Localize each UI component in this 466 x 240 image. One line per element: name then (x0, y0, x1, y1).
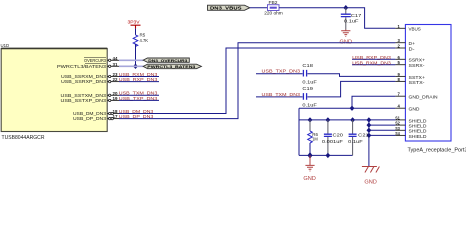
svg-text:1M: 1M (312, 137, 318, 142)
svg-text:GND: GND (303, 176, 316, 182)
svg-text:USB_RXM_DN3: USB_RXM_DN3 (352, 60, 391, 65)
U1D pin 17 stub (107, 117, 119, 119)
gnd bus drop (298, 108, 300, 155)
svg-text:PWRCTL3/BATEN3: PWRCTL3/BATEN3 (57, 64, 106, 69)
chassis ground symbol (362, 167, 380, 173)
junction pin7 on gnd bus (350, 106, 355, 111)
capacitor C19 (303, 93, 306, 100)
svg-text:VBUS: VBUS (409, 27, 421, 32)
wire S2 (369, 124, 396, 126)
svg-text:S4: S4 (395, 131, 400, 136)
capacitor C20 (324, 120, 332, 155)
wire USB_RXP_DN3 to SSRX+ (352, 58, 395, 60)
U1D pin 44 stub (107, 59, 119, 61)
overbar for OVERCUR3 (84, 57, 106, 59)
svg-text:D+: D+ (409, 41, 416, 46)
svg-text:C18: C18 (302, 63, 313, 68)
svg-text:C21: C21 (358, 133, 369, 138)
shield rail to pin S1 (299, 119, 395, 121)
power symbol 3P3V (131, 25, 141, 28)
connector pin S1 stub (395, 119, 405, 121)
bottom rail (299, 154, 353, 156)
svg-text:USB_SSRXP_DN3: USB_SSRXP_DN3 (61, 79, 106, 84)
wire C19 to SSTX- pin 8 (307, 81, 395, 97)
svg-text:0.1uF: 0.1uF (344, 18, 359, 23)
IC U1D body (1, 49, 107, 132)
resistor R5 (133, 35, 138, 47)
U1D pin 18 stub (107, 112, 119, 114)
wire FB2 to VBUS pin 1 (279, 8, 395, 29)
svg-text:SSRX+: SSRX+ (409, 58, 426, 63)
connector body TypeA receptacle (405, 25, 451, 142)
svg-text:SSRX-: SSRX- (409, 63, 426, 68)
svg-text:DN3_OVERCUR3: DN3_OVERCUR3 (148, 58, 188, 63)
connector pin 6 stub (395, 58, 405, 60)
U1D pin 23 stub (107, 75, 119, 77)
svg-text:44: 44 (113, 56, 119, 61)
connector pin 1 stub (395, 27, 405, 29)
ferrite bead FB2 (268, 5, 280, 11)
svg-text:U1D: U1D (1, 43, 10, 48)
svg-text:0.1uF: 0.1uF (348, 139, 363, 144)
junction R6 top (308, 117, 313, 122)
connector pin 9 stub (395, 75, 405, 77)
wire C18 to SSTX+ pin 9 (307, 74, 395, 77)
svg-text:17: 17 (113, 114, 119, 119)
capacitor C18 (303, 70, 306, 77)
wire R5 to PWRCTL3 net (135, 44, 137, 66)
svg-text:OVERCUR3: OVERCUR3 (84, 58, 106, 63)
connector pin 4 stub (395, 107, 405, 109)
svg-text:GND: GND (409, 107, 421, 112)
wire stub USB_RXP_DN3 (119, 81, 159, 83)
svg-text:GND_DRAIN: GND_DRAIN (409, 95, 438, 100)
junction S2 (367, 122, 372, 127)
svg-text:PWRCTL3_BATEN3: PWRCTL3_BATEN3 (147, 64, 196, 69)
svg-text:TUSB8044ARGCR: TUSB8044ARGCR (2, 135, 45, 141)
shield vertical to chassis (368, 120, 370, 166)
svg-text:USB_RXP_DN3: USB_RXP_DN3 (352, 55, 391, 60)
svg-text:DN3_VBUS: DN3_VBUS (210, 5, 242, 10)
wire S3 (369, 129, 396, 131)
connector pin 8 stub (395, 80, 405, 82)
U1D pin 22 stub (107, 80, 119, 82)
capacitor C17 (341, 8, 351, 30)
wire TXM to C19 (256, 96, 303, 98)
ground symbol below R6 (305, 155, 314, 171)
svg-text:0.001uF: 0.001uF (322, 139, 343, 144)
svg-text:USB_SSTXP_DN3: USB_SSTXP_DN3 (61, 98, 107, 103)
svg-text:0.1uF: 0.1uF (302, 79, 317, 84)
svg-text:220 ohm: 220 ohm (264, 11, 283, 16)
wire USB_RXM_DN3 to SSRX- (352, 64, 395, 66)
svg-text:22: 22 (113, 77, 119, 82)
junction C20 top (326, 117, 331, 122)
svg-text:USB_DP_DN3: USB_DP_DN3 (73, 116, 106, 121)
svg-text:31: 31 (113, 62, 119, 67)
U1D pin 31 stub (107, 65, 119, 67)
wire pin 44 to flag (119, 59, 143, 61)
capacitor C21 (349, 120, 357, 155)
resistor R6 (308, 120, 313, 155)
connector pin 2 stub (395, 47, 405, 49)
svg-text:R5: R5 (140, 33, 146, 38)
wire GND_DRAIN pin 7 to bus (352, 96, 395, 108)
svg-text:D-: D- (409, 46, 416, 51)
wire S4 (369, 134, 396, 136)
svg-text:0.1uF: 0.1uF (302, 103, 317, 108)
wire pin 31 to flag (119, 65, 143, 67)
svg-text:4.7K: 4.7K (140, 38, 149, 43)
off-page flag PWRCTL3_BATEN3 (143, 64, 201, 69)
connector pin S3 stub (395, 129, 405, 131)
wire stub USB_TXP_DN3 (119, 99, 159, 101)
U1D box top edge (1, 47, 107, 49)
U1D pin 19 stub (107, 99, 119, 101)
svg-text:USB_TXM_DN3: USB_TXM_DN3 (262, 92, 301, 97)
svg-text:SSTX-: SSTX- (409, 80, 426, 85)
svg-text:C20: C20 (333, 133, 344, 138)
junction shield drop (367, 117, 372, 122)
svg-text:SHIELD: SHIELD (409, 134, 428, 139)
junction C21 top (350, 117, 355, 122)
U1D pin 20 stub (107, 94, 119, 96)
gnd bus to pin 4 (299, 107, 395, 109)
connector pin 7 stub (395, 95, 405, 97)
connector pin 3 stub (395, 42, 405, 44)
connector pin S2 stub (395, 124, 405, 126)
svg-text:FB2: FB2 (269, 0, 279, 5)
ground symbol at C17 (341, 30, 350, 37)
wire stub USB_TXM_DN3 (119, 94, 159, 96)
junction S3 (367, 128, 372, 133)
wire TXP to C18 (256, 73, 303, 75)
wire USB_DP_DN3 to D+ (119, 43, 395, 119)
off-page flag DN3_VBUS (208, 5, 250, 10)
wire 3P3V to R5 (135, 29, 137, 35)
wire flag to FB2 (250, 7, 268, 9)
junction C17 tap (343, 5, 348, 10)
connector pin S4 stub (395, 134, 405, 136)
wire stub USB_RXM_DN3 (119, 76, 159, 78)
junction R5 to wire (133, 64, 138, 69)
overbar for BATEN3 (85, 63, 106, 65)
svg-text:USB_TXP_DN3: USB_TXP_DN3 (262, 69, 301, 74)
svg-text:C19: C19 (302, 86, 313, 91)
svg-text:TypeA_receptacle_Port3: TypeA_receptacle_Port3 (408, 147, 466, 153)
wire USB_DM_DN3 to D- (119, 48, 395, 114)
junction C20 bottom (326, 153, 331, 158)
svg-text:GND: GND (364, 180, 377, 186)
svg-text:19: 19 (113, 96, 119, 101)
svg-text:C17: C17 (351, 13, 362, 18)
svg-text:3P3V: 3P3V (128, 20, 140, 25)
junction S4 (367, 133, 372, 138)
off-page flag DN3_OVERCUR3 (143, 58, 189, 63)
connector pin 5 stub (395, 64, 405, 66)
junction R6 bottom (308, 152, 313, 159)
